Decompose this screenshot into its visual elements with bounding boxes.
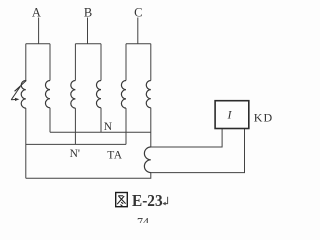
svg-text:74: 74	[137, 215, 149, 223]
svg-text:N': N'	[70, 148, 80, 160]
svg-text:N: N	[104, 121, 113, 133]
svg-text:C: C	[134, 5, 142, 19]
svg-text:KD: KD	[254, 111, 273, 125]
svg-text:A: A	[32, 5, 41, 19]
svg-text:E-23: E-23	[132, 191, 163, 210]
svg-text:TA: TA	[107, 149, 123, 161]
svg-text:B: B	[84, 5, 92, 19]
svg-text:I: I	[227, 108, 233, 122]
